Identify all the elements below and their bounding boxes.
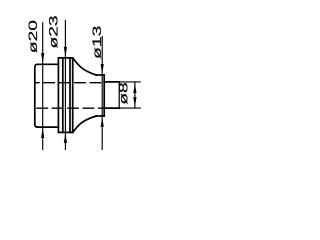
dim line d13: [101, 36, 103, 151]
fillet curve bottom: [73, 116, 96, 132]
extension line d8 top: [119, 81, 141, 83]
flange d23 top edge: [58, 57, 72, 59]
cylinder d20 bottom edge: [38, 126, 59, 128]
dimension lines, thin: [43, 20, 135, 151]
extension line d8 bottom: [119, 107, 141, 109]
arrow d8 top: [133, 83, 136, 93]
dim line d8: [134, 83, 136, 108]
shaft d8 bottom edge: [104, 107, 119, 109]
shaft d8 top edge: [104, 81, 119, 83]
arrowheads: [41, 47, 136, 143]
hidden bore top line: [36, 82, 105, 84]
arrow d13 bottom: [101, 117, 104, 127]
left end face with rounded corners: [35, 64, 38, 127]
arrow d8 bottom: [133, 97, 136, 107]
end face d13: [103, 75, 105, 116]
svg-text:ø8: ø8: [118, 82, 131, 105]
hidden bore lines, dashed: [36, 83, 105, 109]
arrow d13 top: [101, 64, 104, 74]
part outline: stepped bushing, thick strokes: [35, 58, 119, 132]
neck d13 top edge: [96, 74, 104, 76]
arrow d20 top: [41, 53, 44, 63]
flange inner edge right: [69, 58, 71, 132]
flange inner edge left: [62, 58, 64, 132]
flange d23 left edge: [57, 58, 59, 132]
flange right edge: [72, 58, 74, 132]
flange d23 bottom edge: [58, 131, 72, 133]
shaft end edge: [118, 82, 120, 108]
dim line d23: [64, 20, 66, 151]
svg-text:ø20: ø20: [27, 20, 40, 53]
neck d13 bottom edge: [96, 115, 104, 117]
hidden bore bottom line: [36, 107, 104, 109]
arrow d23 bottom: [64, 133, 67, 143]
fillet curve top: [73, 58, 96, 75]
arrow d23 top: [64, 47, 67, 57]
arrow d20 bottom: [41, 128, 44, 138]
dim line d20: [42, 22, 44, 150]
cylinder d20 top edge: [38, 63, 59, 65]
svg-text:ø23: ø23: [48, 15, 61, 48]
svg-text:ø13: ø13: [91, 26, 104, 59]
